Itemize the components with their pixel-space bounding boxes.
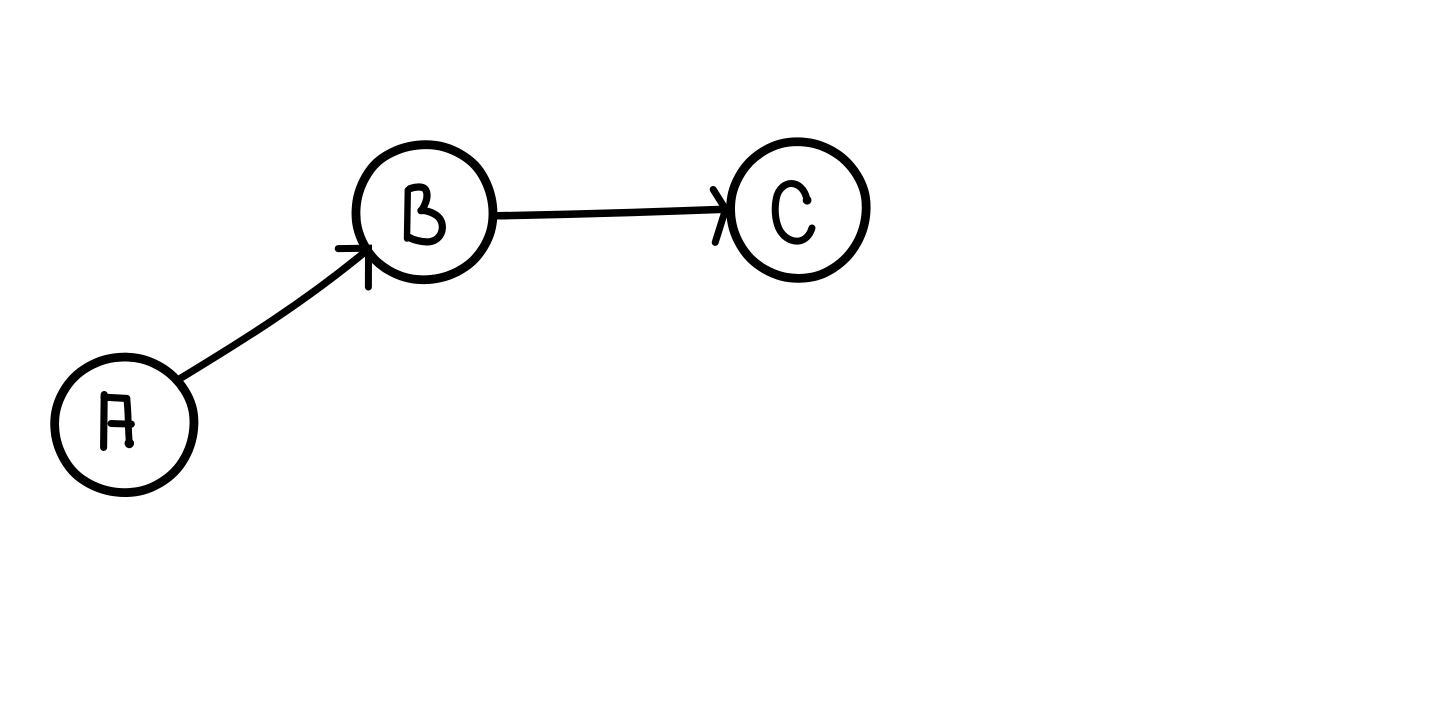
node A circle bbox=[55, 357, 194, 493]
arrowhead at C bbox=[713, 190, 725, 243]
arrowhead at B bbox=[338, 248, 368, 287]
node B label "B" bbox=[407, 187, 442, 242]
node B circle bbox=[356, 145, 493, 280]
node C circle bbox=[731, 142, 867, 279]
node A label "A" bbox=[104, 395, 135, 449]
arrow A to B shaft bbox=[180, 250, 368, 379]
node C label "C" bbox=[775, 184, 812, 242]
arrow B to C shaft bbox=[497, 209, 725, 216]
